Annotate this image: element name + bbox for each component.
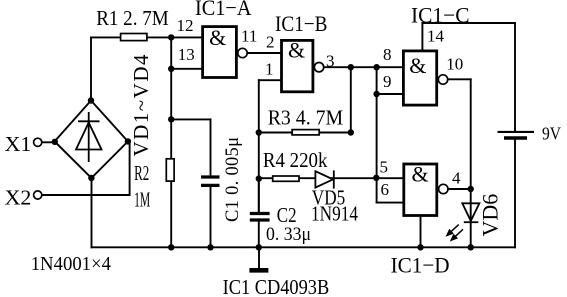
svg-text:C1 0. 005μ: C1 0. 005μ [223, 137, 243, 222]
svg-text:VD6: VD6 [478, 194, 503, 237]
node output LED junction [468, 186, 474, 192]
ground [249, 247, 268, 270]
svg-text:12: 12 [177, 16, 194, 35]
wire battery bottom lead [514, 140, 516, 247]
node C1 branch tee [168, 116, 174, 122]
resistor R1 [121, 34, 147, 41]
node R3 right bottom [348, 129, 354, 135]
wire output vertical to LED node [470, 79, 472, 189]
wire pin 9 [377, 93, 403, 95]
svg-text:0. 33μ: 0. 33μ [266, 224, 311, 245]
LED emission arrows [447, 225, 463, 241]
node R2 at rail [168, 244, 174, 250]
wire vertical input bus at x=171 [170, 37, 172, 247]
node R3 left tee [256, 129, 262, 135]
node pin 7 at rail [417, 244, 423, 250]
LED VD6 [462, 203, 479, 222]
wire IC1-C output [448, 78, 471, 80]
svg-text:R1 2. 7M: R1 2. 7M [96, 6, 169, 30]
wire R4 VD5 to pin 5 [259, 177, 403, 179]
capacitor C1 [201, 177, 220, 185]
wire top rail from bridge to IC1-A pin 12 [91, 36, 202, 38]
node bridge bottom vertex [88, 175, 94, 181]
svg-text:R4 220k: R4 220k [263, 148, 328, 172]
svg-text:8: 8 [383, 45, 392, 64]
terminal X1 [34, 138, 42, 146]
wire X2 lead to bridge right vertex [42, 141, 130, 195]
node C2 at rail [256, 244, 262, 250]
svg-text:X1: X1 [5, 132, 32, 156]
svg-text:&: & [288, 37, 305, 62]
diode symbol inside bridge [76, 112, 102, 162]
svg-text:IC1−A: IC1−A [195, 0, 252, 20]
svg-text:14: 14 [427, 26, 445, 45]
node R1 / pin12 junction [168, 34, 174, 40]
wire C1 upper lead [210, 119, 212, 176]
wire bridge bottom vertical [91, 178, 93, 247]
wire vertical bus x=258 pin1/R3/R4/C2 [258, 80, 260, 212]
wire pin 7 ground stub [420, 217, 422, 247]
svg-text:&: & [411, 162, 428, 187]
svg-text:9V: 9V [542, 123, 561, 143]
resistor R4 [273, 176, 299, 181]
wire pin 1 horizontal [259, 79, 281, 81]
node pin13 tee [168, 66, 174, 72]
svg-text:&: & [209, 25, 226, 50]
wire R3 right vertical [350, 67, 352, 132]
svg-text:IC1−C: IC1−C [411, 2, 470, 27]
node R4 left tee [256, 175, 262, 181]
node C1 at rail [207, 244, 213, 250]
nand gate IC1-C [403, 51, 447, 105]
svg-text:3: 3 [326, 52, 335, 71]
node pin 5 tee [373, 175, 379, 181]
svg-text:1: 1 [265, 60, 274, 79]
node LED at rail [468, 244, 474, 250]
svg-text:11: 11 [241, 27, 257, 46]
wire left vertical to bridge top [90, 37, 92, 101]
svg-text:R3 4. 7M: R3 4. 7M [268, 105, 344, 129]
wire pin 14 vertical stub [421, 23, 423, 50]
svg-text:9: 9 [383, 72, 392, 91]
nand gate IC1-D [404, 162, 448, 216]
wire C1 branch horizontal [171, 118, 210, 120]
svg-text:R2: R2 [134, 161, 149, 185]
terminal X2 [34, 191, 42, 199]
diode VD5 [315, 170, 333, 188]
node R3 right top [348, 64, 354, 70]
svg-text:IC1−B: IC1−B [275, 11, 328, 36]
resistor R2 [166, 159, 174, 181]
svg-text:IC1 CD4093B: IC1 CD4093B [223, 275, 330, 297]
node bridge top vertex [88, 97, 94, 103]
svg-text:2: 2 [266, 33, 275, 52]
wire C2 upper lead [258, 178, 260, 212]
wire C2 lower lead [258, 222, 260, 248]
wire LED lead [470, 189, 472, 247]
wire pin 13 [171, 68, 201, 70]
wire IC1-A output to IC1-B pin 2 [247, 52, 280, 54]
svg-text:13: 13 [178, 45, 195, 64]
wire IC1-B output to IC1-C pin 8 [324, 66, 403, 68]
wire R3 horizontal [259, 132, 351, 134]
wire C1 lower lead [210, 186, 212, 248]
wire X1 lead [42, 141, 55, 143]
node pin 9 tee [373, 91, 379, 97]
nand gate IC1-B [282, 37, 324, 92]
svg-text:&: & [409, 53, 426, 78]
svg-text:1N914: 1N914 [311, 201, 358, 225]
resistor R3 [292, 130, 319, 135]
svg-text:1M: 1M [134, 188, 150, 212]
svg-text:10: 10 [446, 55, 463, 74]
svg-text:IC1−D: IC1−D [391, 252, 450, 277]
node bridge right vertex [125, 138, 131, 144]
svg-text:X2: X2 [5, 186, 32, 210]
node pin 8 tee [373, 64, 379, 70]
node bridge left vertex [52, 139, 58, 145]
svg-text:6: 6 [381, 180, 390, 199]
svg-text:1N4001×4: 1N4001×4 [31, 253, 111, 275]
wire bottom rail [92, 246, 516, 248]
wire vertical bus x=376.6 pins 9,5,6 [376, 67, 378, 202]
svg-text:4: 4 [452, 168, 461, 187]
battery 9V [498, 132, 535, 138]
bridge rectifier VD1~VD4 diamond [55, 101, 128, 179]
wire pin 6 [377, 202, 403, 204]
wire IC1-D output [448, 188, 471, 190]
nand gate IC1-A [203, 25, 248, 78]
capacitor C2 [250, 214, 270, 221]
wire pin 14 horizontal [422, 22, 515, 24]
svg-text:5: 5 [380, 157, 389, 176]
wire battery top lead [514, 23, 516, 130]
